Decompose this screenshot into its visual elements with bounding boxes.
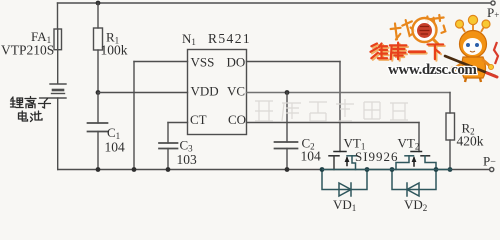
diode VD1: [322, 170, 367, 197]
wire battery branch upper: [57, 3, 59, 29]
capacitor C1: [88, 123, 108, 132]
wire C2 to rail: [286, 149, 288, 170]
node C3 rail junction: [166, 167, 171, 172]
wire R2 to rail: [449, 140, 451, 170]
svg-text:VSS: VSS: [191, 55, 215, 70]
svg-text:CO: CO: [228, 112, 246, 127]
transistor Q1 VT1 MOSFET: [329, 152, 357, 170]
wire VDD pin: [98, 92, 188, 94]
terminal P+: [491, 1, 495, 5]
svg-text:P−: P−: [483, 154, 496, 169]
node VD1 right junction: [365, 167, 370, 172]
terminal P-: [490, 167, 494, 171]
wire fuse to battery: [57, 50, 59, 84]
capacitor C3: [159, 143, 178, 149]
svg-text:104: 104: [301, 149, 322, 164]
node VSS rail junction: [132, 167, 137, 172]
wire VSS pin: [134, 62, 188, 170]
op-amp U1 IC N1 R5421 body: [188, 50, 247, 135]
wire R1 to VDD node: [97, 50, 99, 93]
node junction top rail / R1: [96, 1, 101, 6]
wire CO pin: [247, 123, 420, 152]
svg-text:www.dzsc.com: www.dzsc.com: [388, 62, 477, 78]
svg-text:420k: 420k: [457, 134, 484, 149]
svg-text:VDD: VDD: [191, 84, 219, 99]
svg-text:SI9926: SI9926: [355, 149, 399, 164]
svg-text:DO: DO: [227, 55, 246, 70]
wire R1 branch upper: [97, 3, 99, 28]
svg-text:VC: VC: [227, 84, 245, 99]
node VD2 right junction: [434, 167, 439, 172]
wire C2 branch: [286, 93, 288, 143]
logo 维库一下 red text: [371, 43, 444, 60]
logo 维库一下 shadow: [372, 44, 445, 61]
node VD1 left junction: [320, 167, 325, 172]
logo 找芯片 search text: [390, 15, 446, 40]
resistor R1: [94, 28, 103, 50]
wire C3 to rail: [167, 149, 169, 170]
logo mascot: [445, 15, 498, 82]
wire top positive rail: [58, 2, 491, 4]
transistor Q2 VT2 MOSFET: [396, 152, 436, 170]
svg-text:100k: 100k: [101, 43, 128, 58]
capacitor C2: [275, 142, 298, 149]
wire VDD node to C1: [97, 93, 99, 124]
node VDD junction: [96, 90, 101, 95]
wire VC pin: [247, 92, 451, 94]
wire VC to R2: [449, 93, 451, 114]
fuse FA1: [54, 29, 62, 50]
svg-text:CT: CT: [190, 112, 207, 127]
logo magnifier circle: [413, 18, 439, 44]
svg-text:VTP210S: VTP210S: [1, 43, 54, 58]
node C1 rail junction: [96, 167, 101, 172]
wire bus teal tint segment: [322, 169, 452, 171]
wire bottom negative rail: [58, 169, 490, 171]
svg-text:R5421: R5421: [208, 31, 251, 46]
node VC C2 junction: [285, 90, 290, 95]
battery GB lithium cell: [50, 84, 66, 98]
wire battery negative down: [57, 98, 59, 170]
node C2 rail junction: [285, 167, 290, 172]
ghost watermark faint text: [255, 99, 408, 121]
resistor R2: [446, 113, 455, 140]
wire CT pin: [168, 123, 188, 144]
svg-text:103: 103: [177, 152, 198, 167]
svg-text:104: 104: [105, 140, 126, 155]
node R2 rail junction: [448, 167, 453, 172]
diode VD2: [392, 170, 436, 197]
label 锂离子电池 battery name: [11, 97, 51, 122]
wire DO pin: [247, 62, 341, 152]
node VD2 left junction: [390, 167, 395, 172]
wire C1 to rail: [97, 132, 99, 170]
